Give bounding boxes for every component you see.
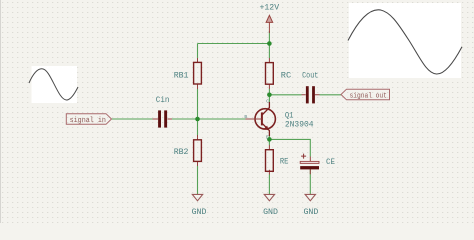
wire CE bottom to gnd <box>309 169 311 194</box>
output sine wave <box>348 10 462 74</box>
wire RE bottom to gnd <box>268 175 270 195</box>
junction node collector <box>267 93 272 98</box>
wire Cin to base <box>172 118 246 120</box>
wire collector node to Q1 <box>268 95 270 102</box>
svg-text:GND: GND <box>263 207 278 217</box>
wire top rail horizontal <box>198 43 270 45</box>
wire RB1 top vertical <box>197 44 199 59</box>
svg-text:Cout: Cout <box>302 71 318 81</box>
power symbol +12V <box>266 15 273 33</box>
wire emitter node to RE <box>268 139 270 145</box>
input sine image box <box>32 66 78 103</box>
ground under RB2 <box>192 194 207 217</box>
svg-text:GND: GND <box>192 207 207 217</box>
svg-text:2N3904: 2N3904 <box>285 120 314 130</box>
ground under CE <box>304 194 319 217</box>
wire RC bottom to collector node <box>268 89 270 95</box>
wire RB2 top <box>197 119 199 135</box>
wire emitter node to CE <box>269 139 310 156</box>
svg-text:CE: CE <box>326 157 335 167</box>
junction node emitter <box>267 137 272 142</box>
svg-text:GND: GND <box>304 207 319 217</box>
output sine image box <box>349 3 461 78</box>
svg-text:+12V: +12V <box>260 3 280 13</box>
transistor Q1 <box>244 99 313 141</box>
wire collector node to Cout <box>269 94 301 96</box>
global label signal in <box>66 114 111 125</box>
wire base row <box>112 118 153 120</box>
svg-text:signal in: signal in <box>70 117 106 125</box>
svg-text:RB1: RB1 <box>174 71 189 81</box>
svg-text:Cin: Cin <box>156 95 170 105</box>
svg-text:C: C <box>266 99 269 105</box>
svg-text:E: E <box>266 135 269 141</box>
svg-text:RE: RE <box>280 156 289 166</box>
wire emitter to node <box>268 136 270 139</box>
svg-text:B: B <box>244 114 247 120</box>
capacitor CE (polarized) <box>300 154 335 175</box>
global label signal out <box>341 89 390 100</box>
resistor RC <box>266 58 292 89</box>
svg-text:signal out: signal out <box>350 92 387 100</box>
wire Cout to signal out <box>320 94 342 96</box>
junction node base <box>195 117 200 122</box>
resistor RE <box>266 145 289 175</box>
resistor RB1 <box>174 58 202 89</box>
wire rail to RC <box>268 44 270 59</box>
input sine wave <box>29 69 78 100</box>
wire RB2 bottom to gnd <box>197 166 199 194</box>
resistor RB2 <box>174 135 202 166</box>
capacitor Cin <box>153 95 173 128</box>
wire +12V to rail <box>268 31 270 44</box>
wire RB1 bottom to base node <box>197 89 199 119</box>
ground under RE <box>263 194 278 217</box>
junction node top rail <box>267 41 272 46</box>
svg-text:RC: RC <box>281 71 291 81</box>
svg-text:RB2: RB2 <box>174 147 189 157</box>
capacitor Cout <box>302 71 320 104</box>
